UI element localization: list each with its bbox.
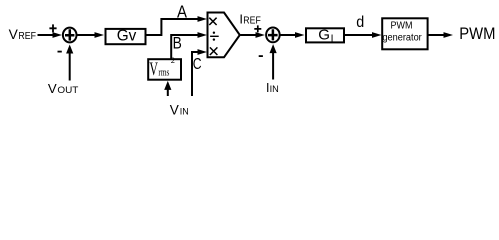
svg-text:V: V bbox=[48, 81, 57, 96]
arrowhead into Gi bbox=[295, 32, 305, 38]
wire C from VIN to multiplier bbox=[192, 52, 199, 96]
block Gi bbox=[306, 28, 344, 42]
minus sign at S2 IIN input bbox=[259, 55, 263, 57]
arrowhead VOUT into S1 bbox=[66, 45, 73, 54]
svg-text:2: 2 bbox=[171, 55, 175, 65]
wire PWM generator output bbox=[428, 34, 445, 36]
minus sign at S1 VOUT input bbox=[58, 51, 62, 53]
wire B from Vrms box to multiplier bbox=[171, 35, 199, 59]
wire d from Gi to PWM generator bbox=[345, 34, 373, 36]
svg-text:I: I bbox=[331, 34, 334, 45]
multiply symbol top bbox=[209, 18, 216, 25]
wire S2 to Gi bbox=[280, 34, 296, 36]
plus sign at S1 input bbox=[49, 24, 56, 32]
arrowhead into S2 bbox=[256, 32, 266, 38]
multiply symbol bottom bbox=[210, 47, 218, 55]
arrowhead into Gv bbox=[95, 32, 105, 38]
arrowhead into PWM generator bbox=[372, 32, 382, 38]
svg-text:IN: IN bbox=[180, 106, 189, 116]
wire VREF to summer S1 bbox=[38, 34, 55, 36]
wire VOUT up to S1 bbox=[69, 52, 71, 81]
svg-text:V: V bbox=[170, 102, 179, 117]
block Gv bbox=[106, 29, 146, 44]
plus sign at S2 input bbox=[254, 25, 261, 32]
summing junction S2 bbox=[266, 28, 280, 43]
svg-text:Gv: Gv bbox=[117, 28, 137, 45]
summing junction S1 bbox=[63, 28, 77, 43]
wire S1 to Gv bbox=[77, 34, 96, 36]
svg-text:A: A bbox=[177, 2, 187, 22]
arrowhead into S1 bbox=[53, 32, 63, 38]
arrowhead VIN into Vrms box bbox=[164, 81, 171, 90]
svg-text:rms: rms bbox=[158, 67, 169, 78]
arrowhead IIN into S2 bbox=[270, 44, 277, 53]
wire multiplier output to S2 bbox=[241, 34, 258, 36]
divide symbol middle bbox=[210, 35, 219, 37]
arrowhead B into multiplier bbox=[198, 32, 208, 38]
arrowhead C into multiplier bbox=[198, 49, 208, 55]
svg-text:B: B bbox=[173, 34, 182, 52]
svg-text:OUT: OUT bbox=[57, 85, 78, 95]
block Vrms squared bbox=[148, 59, 181, 79]
svg-text:d: d bbox=[356, 14, 364, 31]
wire VIN up to Vrms box bbox=[167, 89, 169, 97]
arrowhead PWM output bbox=[444, 32, 454, 38]
svg-text:IN: IN bbox=[270, 84, 279, 94]
wire IIN up to S2 bbox=[272, 52, 274, 80]
svg-text:V: V bbox=[9, 27, 19, 42]
wire A from Gv to multiplier bbox=[147, 19, 200, 35]
block PWM generator bbox=[382, 18, 427, 49]
svg-text:PWM: PWM bbox=[391, 21, 413, 32]
svg-text:REF: REF bbox=[243, 15, 261, 26]
svg-text:V: V bbox=[149, 59, 158, 80]
svg-text:REF: REF bbox=[18, 31, 36, 42]
multiplier block bbox=[208, 13, 240, 58]
svg-text:G: G bbox=[318, 26, 330, 43]
svg-text:generator: generator bbox=[382, 33, 422, 44]
svg-text:C: C bbox=[193, 56, 202, 73]
svg-text:PWM: PWM bbox=[459, 25, 495, 43]
arrowhead A into multiplier bbox=[198, 16, 208, 22]
